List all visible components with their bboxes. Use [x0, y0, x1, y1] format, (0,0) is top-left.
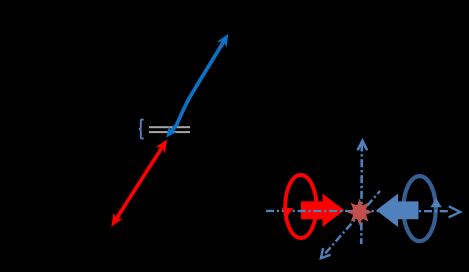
blue block arrow [376, 194, 418, 227]
horizontal dash-dot axis [266, 206, 460, 217]
red incident double-headed arrow [111, 139, 167, 226]
blue rotation ellipse [403, 176, 435, 241]
red rotation ellipse [285, 175, 316, 238]
star burst [347, 199, 372, 226]
blue transmitted double-headed arrow [166, 34, 228, 138]
thickness brace [139, 120, 144, 139]
diagonal dash-dot axis [321, 191, 380, 258]
blue rotation arrowhead [430, 198, 441, 207]
red block arrow [301, 194, 344, 227]
vertical dash-dot axis [358, 141, 368, 244]
membrane bottom surface line [149, 131, 190, 133]
membrane top surface line [149, 126, 190, 128]
red rotation arrowhead [281, 208, 293, 217]
